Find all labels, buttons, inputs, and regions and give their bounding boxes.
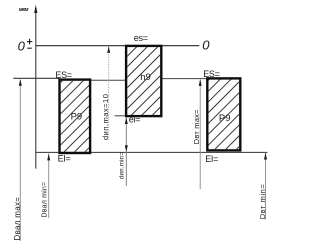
svg-text:EI=: EI=	[58, 153, 71, 163]
hatch left box	[0, 0, 237, 252]
svg-text:P9: P9	[71, 111, 83, 122]
dimension dip.max line	[108, 47, 110, 140]
shaft tolerance box h9 middle	[126, 46, 161, 116]
EI line full	[36, 151, 268, 153]
zero line	[36, 45, 200, 47]
svg-text:ei=: ei=	[129, 114, 140, 124]
y-axis	[35, 8, 37, 169]
dimension dip.min line	[125, 117, 127, 186]
svg-text:Dвал min=: Dвал min=	[41, 182, 48, 218]
svg-text:Dвт min=: Dвт min=	[258, 184, 267, 220]
svg-text:dип.max=10: dип.max=10	[101, 94, 110, 140]
ei stub left of middle box	[115, 115, 126, 117]
svg-text:Dвт max=: Dвт max=	[192, 109, 201, 144]
y-axis arrowhead	[34, 5, 37, 13]
hole tolerance box P9 left	[60, 80, 91, 153]
dimension Dval max line	[19, 80, 21, 242]
dimension Dval min line	[48, 153, 50, 218]
svg-text:ES=: ES=	[55, 70, 71, 80]
svg-text:ES=: ES=	[203, 69, 219, 79]
plus-minus symbol	[27, 39, 32, 48]
svg-text:P9: P9	[219, 113, 231, 124]
ES extension line left	[13, 77, 59, 79]
svg-text:Dвал max=: Dвал max=	[13, 197, 22, 241]
svg-text:dип.min=: dип.min=	[118, 152, 125, 180]
hole tolerance box P9 right	[207, 78, 240, 150]
dimension Dvt max line	[199, 80, 201, 190]
ES line right (middle box to right box)	[162, 78, 207, 80]
svg-text:0: 0	[18, 39, 26, 54]
dimension Dvt min line	[265, 153, 267, 220]
svg-text:es=: es=	[134, 33, 148, 43]
svg-text:EI=: EI=	[205, 154, 218, 164]
svg-text:мкм: мкм	[19, 7, 29, 13]
svg-text:h9: h9	[140, 72, 151, 83]
svg-text:0: 0	[202, 37, 210, 52]
ES line mid (left box to middle box)	[91, 79, 125, 81]
